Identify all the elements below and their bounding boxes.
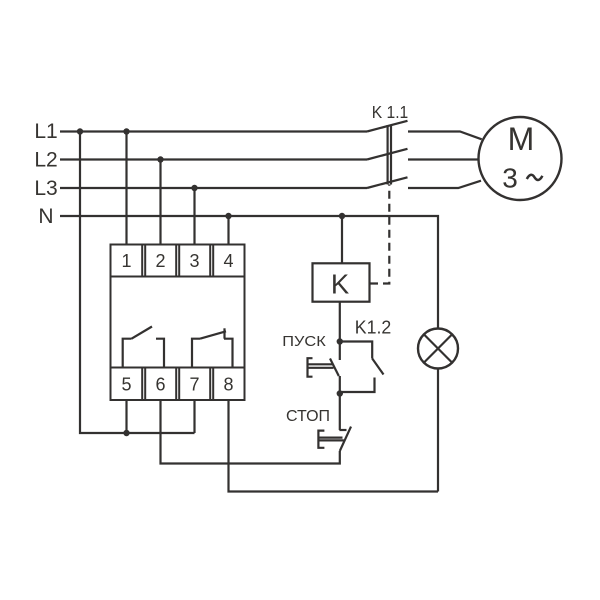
lamp HL cross	[424, 334, 452, 362]
svg-text:K1.2: K1.2	[355, 318, 392, 338]
svg-text:СТОП: СТОП	[286, 408, 330, 425]
K1.2 aux contact branch	[340, 342, 372, 359]
junction L3 to terminal 3	[191, 185, 197, 191]
svg-text:L3: L3	[34, 177, 57, 200]
junction start node bottom	[337, 390, 343, 396]
junction N coil branch	[339, 213, 345, 219]
wire N to coil K	[341, 216, 343, 263]
svg-text:2: 2	[155, 251, 165, 271]
svg-text:4: 4	[223, 251, 233, 271]
wire terminal 8 to lamp	[229, 400, 439, 492]
start button PUSK actuator	[308, 358, 313, 377]
contactor contact K1.1 pole 3	[367, 177, 408, 188]
start button PUSK contact bar	[330, 359, 339, 377]
svg-text:8: 8	[223, 375, 233, 395]
pin separators top row	[141, 245, 143, 277]
wire N bus	[60, 216, 438, 329]
junction start node top	[337, 338, 343, 344]
wire PUSK bottom to stop node	[339, 376, 341, 430]
relay module U1 outline	[111, 245, 245, 401]
pin separators bottom row	[141, 368, 143, 401]
svg-text:L1: L1	[34, 120, 57, 143]
svg-text:K: K	[331, 269, 350, 300]
wire L1 bus	[60, 130, 367, 132]
wire coil K to start node	[339, 302, 341, 360]
wire STOP bottom to terminal 6	[161, 400, 340, 464]
wire L2 bus	[60, 158, 367, 160]
wire terminal 5 drop	[125, 400, 127, 433]
svg-text:ПУСК: ПУСК	[282, 333, 326, 350]
motor M circle	[479, 117, 562, 200]
wire K1.1 pole1 to motor	[408, 132, 482, 140]
wire K1.1 pole3 to motor	[408, 181, 481, 188]
contactor contact K1.1 pole 2	[367, 149, 408, 160]
svg-text:6: 6	[155, 375, 165, 395]
junction L2 to terminal 2	[157, 156, 163, 162]
svg-text:5: 5	[121, 375, 131, 395]
dashed mechanical link to coil K	[370, 185, 389, 284]
wire terminal 7 drop	[193, 400, 195, 433]
K1.1 linkage bar	[387, 125, 389, 185]
wire L3 to terminal 3	[193, 188, 195, 245]
relay contact NC between pins 7 and 8	[192, 339, 200, 368]
junction L1 to terminal 1	[123, 128, 129, 134]
junction bottom rail at terminal 5	[123, 430, 129, 436]
coil K box	[313, 263, 370, 301]
svg-text:3: 3	[502, 163, 518, 194]
wire K1.1 pole2 to motor	[408, 158, 478, 160]
contactor contact K1.1 pole 1	[367, 121, 408, 132]
lamp HL circle	[418, 329, 458, 369]
stop button STOP actuator	[318, 431, 324, 448]
svg-text:K 1.1: K 1.1	[372, 102, 409, 122]
svg-text:L2: L2	[34, 149, 57, 172]
svg-text:1: 1	[121, 251, 131, 271]
wire N to terminal 4	[227, 216, 229, 245]
stop button STOP terminal tick	[339, 429, 346, 431]
wire L1 to terminal 1	[125, 132, 127, 245]
wire L2 to terminal 2	[159, 160, 161, 245]
svg-text:3: 3	[189, 251, 199, 271]
wire L3 bus	[60, 187, 367, 189]
svg-text:M: M	[508, 121, 535, 157]
svg-text:N: N	[38, 205, 53, 228]
svg-text:7: 7	[189, 375, 199, 395]
wire lamp bottom	[437, 369, 439, 492]
stop button STOP contact bar	[340, 427, 351, 451]
junction L1 far-left drop	[77, 128, 83, 134]
relay contact NO between pins 5 and 6	[123, 339, 132, 368]
junction N to terminal 4	[225, 213, 231, 219]
wire L1 far-left drop to bottom rail	[80, 132, 195, 434]
